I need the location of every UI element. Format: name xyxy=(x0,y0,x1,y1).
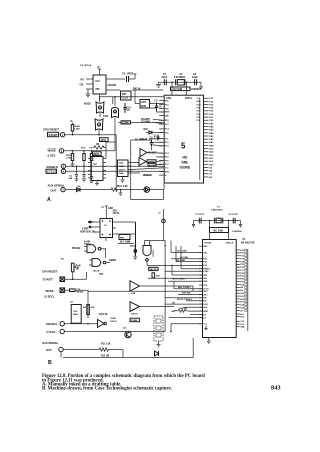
wire reset line xyxy=(65,134,97,136)
ground at crystal left xyxy=(156,82,161,87)
svg-text:10pF: 10pF xyxy=(192,76,198,79)
boxed label 4016 xyxy=(100,138,109,142)
svg-text:LED: LED xyxy=(119,163,124,165)
wires crystal into U5B xyxy=(210,221,229,240)
boxed label 9602 xyxy=(93,152,102,156)
svg-text:74C14: 74C14 xyxy=(113,212,120,215)
svg-text:74C14: 74C14 xyxy=(131,313,138,316)
ground under U2 xyxy=(86,89,91,97)
ground inside bottom xyxy=(204,326,207,330)
U5B left pin ticks xyxy=(199,246,203,324)
svg-text:BA LINE: BA LINE xyxy=(182,292,191,295)
svg-text:WAIT: WAIT xyxy=(203,310,209,313)
svg-text:ENABLE: ENABLE xyxy=(46,322,57,326)
svg-text:13: 13 xyxy=(99,108,101,110)
svg-text:MLB: MLB xyxy=(74,267,79,269)
resistor RING LOW (vertical) xyxy=(71,125,73,132)
wire U2 output to C3 xyxy=(106,78,125,80)
bottom rail wire xyxy=(61,338,193,358)
wires upper-left pins of U5 xyxy=(135,90,164,112)
svg-text:100K: 100K xyxy=(141,105,147,108)
resistor R9 on wake line xyxy=(70,289,76,292)
label START boxed xyxy=(48,132,59,136)
wire wake line xyxy=(64,150,115,152)
terminal aux B xyxy=(59,347,63,351)
svg-text:FAULTS: FAULTS xyxy=(99,313,108,316)
boxed label RST CONN xyxy=(119,235,130,240)
svg-text:SCHMIB: SCHMIB xyxy=(141,122,150,124)
net label ASOM boxed xyxy=(148,163,156,166)
wire crystal pins into U5 xyxy=(172,82,187,95)
svg-text:4MLB: 4MLB xyxy=(130,245,136,248)
U1 pin stubs xyxy=(91,222,116,234)
svg-text:PU: PU xyxy=(81,78,85,81)
svg-text:WR: WR xyxy=(203,298,207,300)
diode D3 circled on aux line xyxy=(144,187,150,193)
svg-text:CM: CM xyxy=(80,83,84,86)
svg-text:1.8M MHz: 1.8M MHz xyxy=(232,231,243,233)
svg-text:9602: 9602 xyxy=(94,153,100,156)
terminal cycle xyxy=(61,169,65,173)
timer IC6 box xyxy=(91,157,103,181)
wire start line xyxy=(65,278,87,280)
svg-text:STBY: STBY xyxy=(203,271,209,273)
svg-text:6800pF: 6800pF xyxy=(76,292,84,294)
svg-text:CONN: CONN xyxy=(131,320,138,322)
wire G3 output up to bus xyxy=(113,97,115,106)
LED indicator block xyxy=(118,160,129,177)
svg-text:IRQ: IRQ xyxy=(203,278,207,280)
trunk vertical x165 xyxy=(145,241,166,332)
IC6 pin stubs xyxy=(88,159,106,179)
svg-text:B: B xyxy=(48,360,52,366)
LED block pins xyxy=(128,163,131,174)
diode D5 near rail xyxy=(155,351,159,356)
svg-text:MA1 2.2K: MA1 2.2K xyxy=(117,185,128,188)
resistor ANT 100K block xyxy=(140,100,150,109)
svg-text:TxD: TxD xyxy=(197,98,201,100)
crystal X1B xyxy=(216,218,221,223)
svg-text:IO/M: IO/M xyxy=(203,304,208,306)
op-amp U2 box xyxy=(93,75,106,94)
svg-text:RB1: RB1 xyxy=(88,222,93,224)
svg-text:(5 SEC): (5 SEC) xyxy=(45,295,55,299)
capacitor at trunk xyxy=(134,222,137,256)
svg-text:AT LINK: AT LINK xyxy=(180,256,189,259)
svg-text:843: 843 xyxy=(271,384,281,391)
wire G3 input down xyxy=(114,118,116,151)
svg-text:HD 6301V1P: HD 6301V1P xyxy=(241,243,255,245)
U5B bottom pin and ground xyxy=(207,338,211,344)
svg-text:CPU RESET: CPU RESET xyxy=(43,128,59,132)
capacitor C6b xyxy=(82,166,86,182)
svg-text:NMI: NMI xyxy=(165,115,169,117)
svg-text:NRZ CONN 3: NRZ CONN 3 xyxy=(178,287,192,289)
terminal wake circle xyxy=(59,149,63,153)
vertical trunk wires xyxy=(106,140,152,190)
ground arrow left B xyxy=(192,221,194,227)
svg-text:ASOM: ASOM xyxy=(149,164,156,167)
svg-text:EXTAL: EXTAL xyxy=(185,97,193,100)
svg-text:MOTU CONN 3: MOTU CONN 3 xyxy=(177,299,193,301)
svg-text:RxD: RxD xyxy=(197,101,202,103)
svg-text:74C14: 74C14 xyxy=(110,320,117,323)
wire lower return xyxy=(131,190,164,200)
svg-text:1.8M MHz: 1.8M MHz xyxy=(191,89,202,91)
resistor RING LOW 2 xyxy=(72,151,74,154)
svg-text:ISORD: ISORD xyxy=(180,166,191,170)
svg-text:RST: RST xyxy=(122,93,127,96)
terminal cycle B xyxy=(60,329,64,333)
svg-text:IRQ: IRQ xyxy=(165,120,169,122)
extra stub wires into U5 left xyxy=(150,142,164,157)
svg-text:START: START xyxy=(49,133,58,137)
terminal enable xyxy=(61,164,65,168)
svg-text:ADR GEN JTL: ADR GEN JTL xyxy=(80,230,96,233)
capacitor C7B xyxy=(199,218,201,224)
connector J1 dashed box xyxy=(154,316,163,341)
svg-text:74C14: 74C14 xyxy=(151,250,154,257)
svg-text:OUT: OUT xyxy=(51,188,57,192)
svg-text:GMEN: GMEN xyxy=(109,260,116,262)
svg-text:HO31B: HO31B xyxy=(108,83,117,87)
svg-text:NMI: NMI xyxy=(203,275,207,277)
buffer U3B triangle xyxy=(130,302,139,312)
U5B left pin labels inside xyxy=(203,246,210,326)
svg-text:U10B: U10B xyxy=(110,318,116,320)
net label PACIM boxed xyxy=(149,267,158,270)
terminal box wake xyxy=(60,288,65,293)
svg-text:7432: 7432 xyxy=(103,115,109,118)
svg-text:STOP: STOP xyxy=(82,229,89,231)
svg-text:CLCK: CLCK xyxy=(122,97,129,100)
svg-text:AUX SERIAL: AUX SERIAL xyxy=(48,183,65,187)
svg-text:ENABLE: ENABLE xyxy=(47,165,59,169)
block RST CLCK xyxy=(121,91,132,100)
junction dots crystal xyxy=(171,82,173,84)
svg-text:74C14: 74C14 xyxy=(93,270,100,273)
svg-text:A: A xyxy=(47,197,51,203)
capacitor C6c xyxy=(90,171,94,182)
svg-text:PACIM: PACIM xyxy=(150,268,157,271)
crystal X1 xyxy=(177,80,184,85)
svg-text:CPU RESET: CPU RESET xyxy=(42,270,58,274)
svg-text:4016: 4016 xyxy=(101,139,107,142)
capacitor C4 C1A xyxy=(123,103,126,113)
svg-text:555: 555 xyxy=(96,88,101,91)
svg-text:COM: COM xyxy=(119,166,124,168)
svg-text:RXD: RXD xyxy=(203,281,208,283)
crystal bus wire xyxy=(159,81,202,83)
svg-text:47K: 47K xyxy=(91,306,95,309)
wire aux serial line xyxy=(65,189,110,191)
wire rows into U5B left pins xyxy=(88,265,203,331)
or-gate G2 (7432) xyxy=(95,119,103,130)
svg-text:FAIL: FAIL xyxy=(119,172,124,175)
svg-text:1M: 1M xyxy=(96,144,99,146)
svg-text:CYCLE: CYCLE xyxy=(47,170,57,174)
buffer U3A triangle xyxy=(130,281,139,292)
svg-text:R23: R23 xyxy=(144,129,149,131)
nand gate B5 (vertical, pointing down) xyxy=(143,246,151,256)
svg-text:VPOF: VPOF xyxy=(127,73,134,76)
svg-text:3.072MHz: 3.072MHz xyxy=(174,76,186,79)
wire node to clock bus xyxy=(99,94,101,100)
svg-text:AUX SERIAL: AUX SERIAL xyxy=(42,341,59,345)
nand gate B1 xyxy=(87,245,96,253)
svg-text:4(B): 4(B) xyxy=(99,273,104,276)
svg-text:RST: RST xyxy=(120,238,125,240)
transistor Q1 xyxy=(125,331,131,337)
svg-text:22pF: 22pF xyxy=(162,76,168,79)
svg-text:R14 1M: R14 1M xyxy=(179,307,187,310)
svg-text:BA: BA xyxy=(172,310,176,313)
svg-text:CS 12(T)-A: CS 12(T)-A xyxy=(80,64,92,67)
svg-text:AUTO: AUTO xyxy=(119,169,125,172)
svg-text:TXD: TXD xyxy=(203,285,208,287)
svg-text:WAKE: WAKE xyxy=(48,148,57,152)
wires middle to U5 left pins xyxy=(131,153,164,176)
U5 inner bus line xyxy=(199,99,201,180)
svg-text:MAX: MAX xyxy=(73,313,78,316)
ground on aux line xyxy=(119,190,123,196)
U5 left pin ticks xyxy=(159,101,164,176)
svg-text:R11 3.3K: R11 3.3K xyxy=(101,344,111,346)
op-amp U2 supply pin +5 xyxy=(98,69,101,75)
resistor RC 10M box xyxy=(210,228,229,233)
IC U10 box xyxy=(71,305,81,324)
ground arrow right B xyxy=(239,221,241,227)
svg-text:SCK: SCK xyxy=(197,104,202,106)
svg-text:STB: STB xyxy=(165,171,170,173)
svg-text:XTAL R: XTAL R xyxy=(226,242,234,245)
svg-text:HD: HD xyxy=(183,156,188,160)
terminal 1 circle xyxy=(60,133,64,137)
wire G2 output down to reset line xyxy=(96,130,99,135)
svg-text:13: 13 xyxy=(98,125,100,127)
svg-text:4011: 4011 xyxy=(113,210,119,213)
microprocessor U5B box xyxy=(203,240,237,338)
wire U1 to right trunk xyxy=(106,222,136,241)
schmitt gate B4 xyxy=(98,320,105,328)
wire rows into U5B left pins (upper) xyxy=(168,241,203,332)
terminal enable B xyxy=(60,322,64,326)
wire enable line xyxy=(66,165,165,167)
svg-text:13: 13 xyxy=(114,112,116,114)
op-amp T2 triangle xyxy=(139,158,146,166)
svg-text:WAKE: WAKE xyxy=(46,289,54,293)
svg-text:RES: RES xyxy=(203,246,208,248)
resistor R2 10M box xyxy=(171,87,191,91)
svg-text:C7 22 PF: C7 22 PF xyxy=(195,214,205,216)
net label CONNECT xyxy=(121,121,131,124)
svg-text:9 SEC: 9 SEC xyxy=(48,154,56,158)
terminal box start xyxy=(60,277,65,282)
svg-text:SMT CONN 3: SMT CONN 3 xyxy=(172,279,186,281)
crystal bus wire B xyxy=(194,220,241,222)
svg-text:"START": "START" xyxy=(42,278,54,282)
ground at crystal right xyxy=(199,82,203,88)
svg-text:CYCLE: CYCLE xyxy=(46,330,55,334)
terminal ring on +5 line xyxy=(162,219,166,223)
svg-text:CONN: CONN xyxy=(122,122,129,124)
op-amp MCM07 triangle xyxy=(140,149,147,157)
op-amp U2 left pin stubs xyxy=(86,79,93,89)
svg-text:4.7x48: 4.7x48 xyxy=(140,138,148,141)
capacitor C11 xyxy=(134,248,138,255)
or-gate G1 (7432) xyxy=(96,102,104,113)
svg-text:SCHMIT: SCHMIT xyxy=(141,119,150,121)
nand-gate G3 xyxy=(112,107,119,117)
svg-text:RES: RES xyxy=(165,112,170,114)
resistor R4 47K (vertical) xyxy=(87,305,90,315)
svg-text:RC 10M: RC 10M xyxy=(214,230,223,233)
ground under IC6 xyxy=(95,181,99,185)
svg-text:PREAM: PREAM xyxy=(72,247,80,250)
svg-text:OUT: OUT xyxy=(46,348,52,352)
svg-text:ANT: ANT xyxy=(141,101,146,104)
ground under connector J1 xyxy=(157,341,161,347)
svg-text:47K: 47K xyxy=(156,275,160,278)
svg-text:5: 5 xyxy=(181,141,186,150)
nand gate B2 xyxy=(92,259,101,267)
svg-text:ALE: ALE xyxy=(203,306,208,309)
wire from gates region down xyxy=(99,135,116,143)
microprocessor U5 box xyxy=(164,95,203,183)
capacitor C8 xyxy=(195,79,197,85)
gate IC U1 box xyxy=(100,219,113,238)
wire wake line xyxy=(65,289,70,291)
terminal aux xyxy=(61,187,65,191)
net label DISME boxed xyxy=(147,160,156,163)
svg-text:IC2: IC2 xyxy=(96,79,101,83)
connector bus vertical line xyxy=(247,249,249,331)
clock bus wires xyxy=(100,90,164,97)
resistor RAB 1M (vertical) xyxy=(71,263,74,272)
svg-text:1.8432 MHz: 1.8432 MHz xyxy=(211,209,224,212)
label CYCLE boxed xyxy=(46,169,57,173)
svg-text:64B: 64B xyxy=(182,161,189,165)
wire cycle line xyxy=(66,170,165,172)
label CONNECTS boxed xyxy=(130,318,139,322)
capacitor C8B xyxy=(233,218,235,224)
U5 right pin ticks and labels xyxy=(204,98,209,177)
svg-text:U3B: U3B xyxy=(131,293,136,295)
svg-text:GND: GND xyxy=(240,327,245,329)
svg-text:C8 10 PF: C8 10 PF xyxy=(229,214,239,216)
ground under C11 xyxy=(133,255,137,260)
ground under LED block xyxy=(121,177,125,183)
resistor R13 47K vertical xyxy=(152,273,155,278)
svg-text:R2 10M: R2 10M xyxy=(174,88,182,91)
wire G1 to G2 xyxy=(99,96,101,117)
svg-text:NO32: NO32 xyxy=(84,102,91,106)
svg-text:EXTAL: EXTAL xyxy=(205,242,213,245)
svg-text:B. Machine-drawn, from Case Te: B. Machine-drawn, from Case Technologies… xyxy=(42,387,172,392)
svg-text:NCT LINE: NCT LINE xyxy=(177,251,187,253)
U5B right pin rows xyxy=(236,250,240,327)
capacitor C7 xyxy=(164,79,166,85)
resistor R5 1M zigzag xyxy=(93,146,107,149)
